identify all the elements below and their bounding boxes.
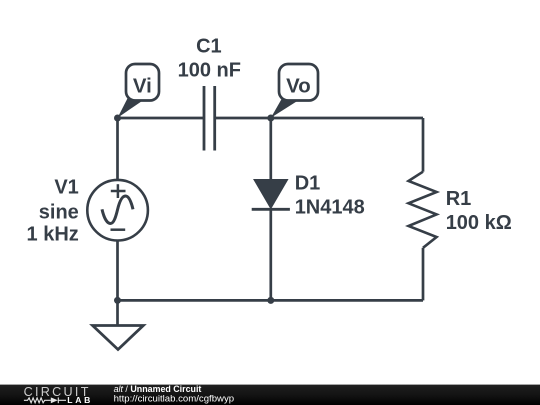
voltage source V1 (87, 180, 148, 241)
wire top-right (node Vo to top-right corner) (271, 117, 423, 120)
svg-text:1N4148: 1N4148 (295, 197, 365, 219)
wire top-middle (C1 right plate to node Vo) (216, 117, 271, 120)
svg-text:Vi: Vi (133, 76, 152, 98)
node flag Vo (box) (279, 64, 318, 101)
svg-text:D1: D1 (295, 173, 321, 195)
svg-text:C1: C1 (196, 35, 222, 57)
CircuitLab logo diode cathode bar (57, 397, 59, 403)
V1 sine symbol (102, 196, 133, 224)
node flag Vo (tail pointer) (271, 98, 299, 118)
footer bar (0, 385, 540, 405)
wire top-left (node Vi to C1 left plate) (118, 117, 204, 120)
V1 body circle (87, 180, 148, 241)
wire right vertical (R1 bottom lead to bottom rail) (422, 248, 425, 301)
D1 cathode bar (252, 208, 290, 211)
svg-text:1 kHz: 1 kHz (27, 224, 79, 246)
svg-text:V1: V1 (54, 176, 78, 198)
CircuitLab logo wire to LAB (58, 399, 66, 401)
svg-text:sine: sine (39, 202, 79, 224)
svg-text:R1: R1 (446, 188, 472, 210)
node junction bottom-left (114, 297, 121, 304)
ground (93, 326, 144, 350)
svg-text:Vo: Vo (286, 76, 311, 98)
wire right vertical (top-right corner to R1 top lead) (422, 118, 425, 172)
V1 minus sign (111, 228, 126, 231)
wire left vertical (node Vi to V1 + terminal) (116, 118, 119, 180)
node junction bottom-middle (267, 297, 274, 304)
wire middle vertical (node Vo to D1 anode) (269, 118, 272, 180)
wire bottom rail (118, 299, 424, 302)
svg-text:http://circuitlab.com/cgfbwyp: http://circuitlab.com/cgfbwyp (114, 393, 235, 404)
wire left vertical (V1 - terminal to bottom rail) (116, 241, 119, 301)
CircuitLab logo resistor squiggle wire (24, 398, 51, 403)
svg-text:100 kΩ: 100 kΩ (446, 212, 512, 234)
CircuitLab logo diode triangle (51, 397, 58, 403)
node dot Vo (267, 115, 274, 122)
wire ground stub (116, 300, 119, 325)
wire middle vertical (D1 cathode to bottom rail) (269, 209, 272, 300)
capacitor C1 (204, 86, 215, 151)
D1 anode triangle (254, 180, 288, 209)
resistor R1 (409, 172, 437, 248)
svg-text:100 nF: 100 nF (178, 59, 241, 81)
node dot Vi (114, 115, 121, 122)
node flag Vi (box) (126, 64, 159, 101)
svg-text:LAB: LAB (67, 395, 90, 405)
V1 plus sign (111, 190, 126, 193)
node flag Vi (tail pointer) (118, 98, 145, 118)
diode D1 (252, 180, 290, 210)
